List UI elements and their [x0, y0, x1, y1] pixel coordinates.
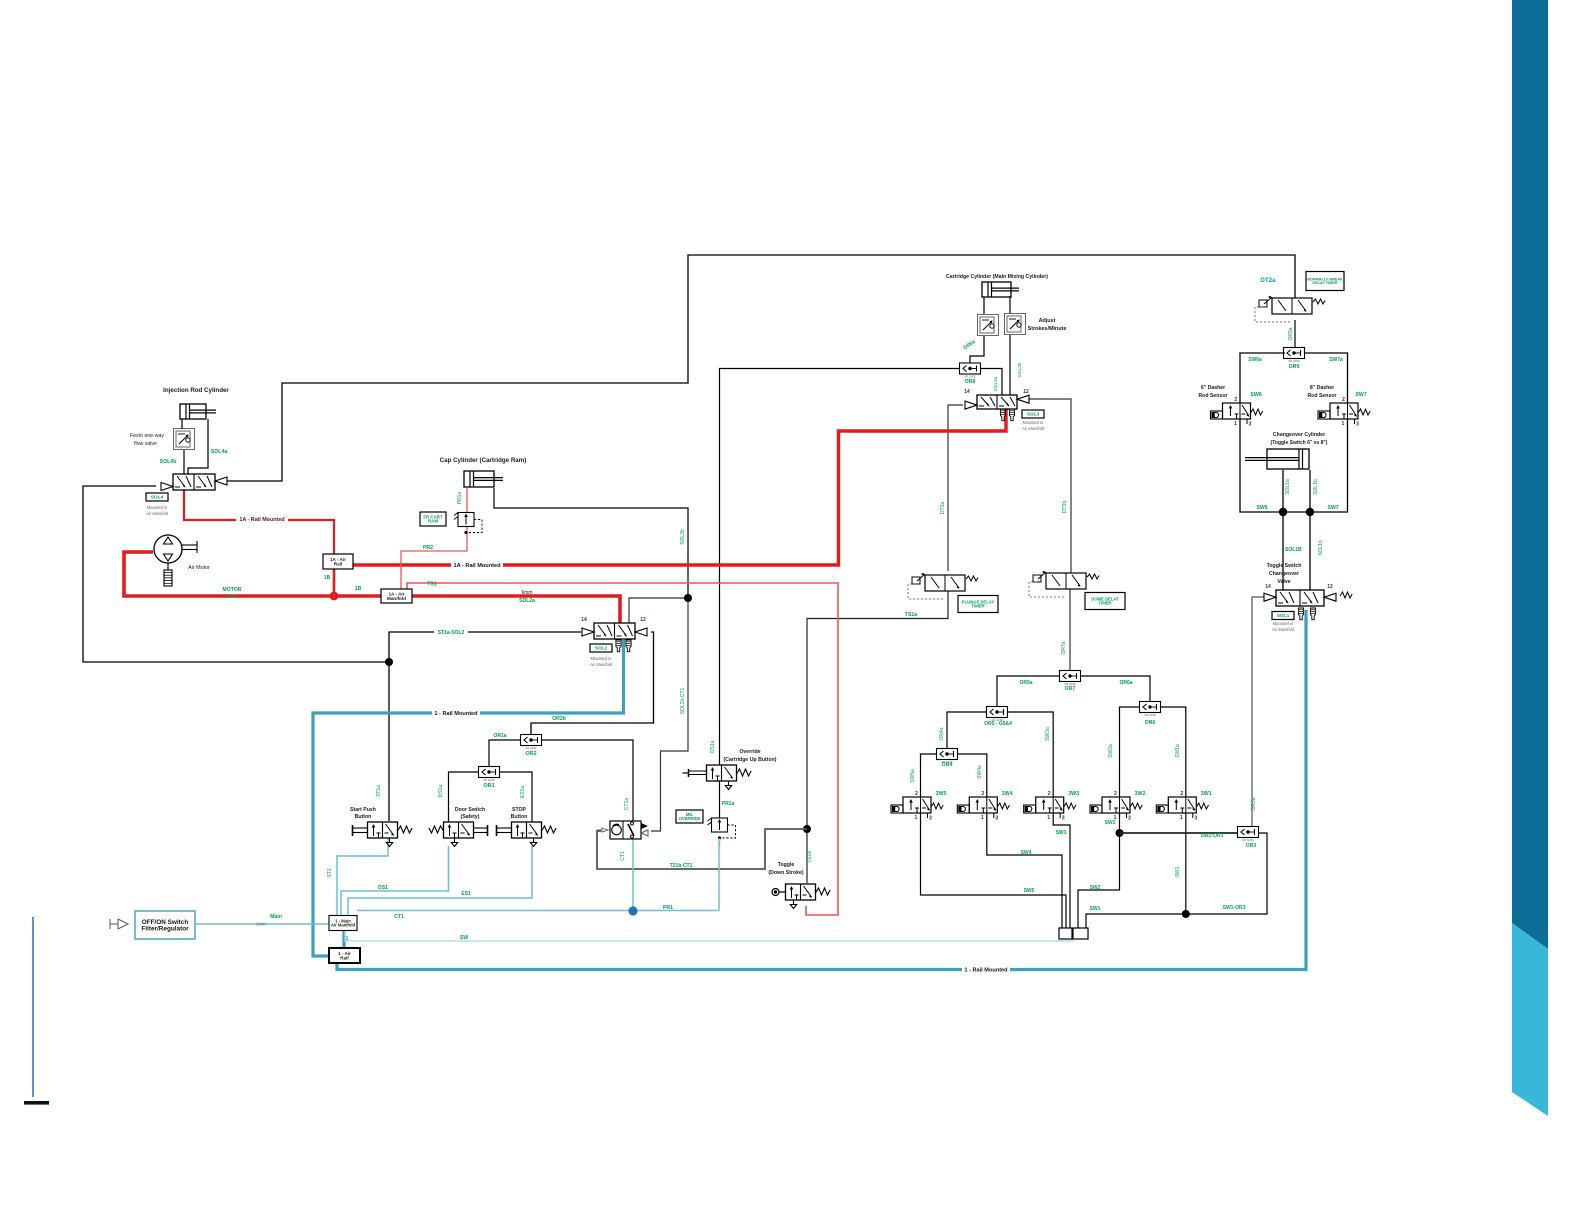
- svg-text:14: 14: [581, 617, 587, 623]
- svg-text:TIMER: TIMER: [971, 604, 984, 609]
- svg-text:2: 2: [1235, 397, 1238, 403]
- svg-text:SW2: SW2: [1090, 885, 1101, 891]
- svg-text:OR9a: OR9a: [1288, 327, 1294, 340]
- svg-text:Air Manifold: Air Manifold: [331, 923, 356, 928]
- svg-text:14: 14: [964, 389, 970, 395]
- svg-text:OS1a: OS1a: [710, 740, 716, 753]
- svg-text:SOL1b: SOL1b: [1318, 540, 1324, 556]
- svg-text:OR5 - G5&4: OR5 - G5&4: [984, 721, 1012, 727]
- svg-text:SW3: SW3: [1056, 830, 1067, 836]
- svg-text:OR2b: OR2b: [552, 716, 566, 722]
- svg-text:SOL2b: SOL2b: [680, 529, 686, 545]
- svg-text:OR GATE: OR GATE: [1242, 838, 1254, 842]
- svg-text:CT1a: CT1a: [624, 798, 630, 810]
- svg-text:3W3: 3W3: [1068, 791, 1079, 797]
- svg-text:DS1a: DS1a: [438, 785, 444, 798]
- svg-text:CT1: CT1: [620, 851, 626, 861]
- svg-text:Rod Sensor: Rod Sensor: [1198, 393, 1227, 399]
- svg-text:SOL2: SOL2: [595, 646, 608, 652]
- svg-text:3: 3: [1062, 816, 1065, 822]
- svg-text:Injection Rod Cylinder: Injection Rod Cylinder: [163, 387, 229, 394]
- svg-text:TS1: TS1: [427, 582, 437, 588]
- svg-text:DT3b: DT3b: [1062, 501, 1068, 513]
- svg-text:3: 3: [1249, 422, 1252, 428]
- svg-text:SW5a: SW5a: [910, 769, 916, 783]
- svg-text:1A - Rail Mounted: 1A - Rail Mounted: [239, 517, 284, 523]
- svg-text:1 - Rail Mounted: 1 - Rail Mounted: [964, 967, 1008, 973]
- svg-text:2: 2: [1180, 791, 1183, 797]
- svg-text:PR1: PR1: [663, 905, 673, 911]
- svg-text:T21b-CT1: T21b-CT1: [670, 863, 693, 869]
- svg-text:TIMER: TIMER: [1098, 601, 1111, 606]
- svg-text:OR3: OR3: [1246, 843, 1257, 849]
- svg-text:SOL3a: SOL3a: [993, 376, 999, 391]
- svg-text:SOL3: SOL3: [1027, 412, 1040, 418]
- svg-text:ST1a-SOL2: ST1a-SOL2: [438, 630, 465, 636]
- svg-text:OR GATE: OR GATE: [525, 746, 537, 750]
- svg-text:Cartridge Cylinder (Main Mixin: Cartridge Cylinder (Main Mixing Cylinder…: [946, 274, 1048, 280]
- svg-text:Adjust: Adjust: [1039, 318, 1056, 324]
- svg-text:ST1: ST1: [327, 868, 333, 877]
- svg-text:OR8: OR8: [965, 379, 976, 385]
- svg-text:1: 1: [1047, 815, 1050, 821]
- svg-text:SW6: SW6: [1256, 505, 1267, 511]
- svg-text:Toggle: Toggle: [778, 862, 795, 868]
- svg-text:(Safety): (Safety): [460, 814, 479, 820]
- svg-text:Door Switch: Door Switch: [455, 807, 485, 813]
- svg-text:DT3a: DT3a: [940, 502, 946, 514]
- svg-text:Air Motor: Air Motor: [188, 565, 210, 571]
- svg-text:14: 14: [1265, 584, 1271, 590]
- svg-text:SOL1b: SOL1b: [1313, 479, 1319, 495]
- svg-text:1: 1: [1234, 421, 1237, 427]
- svg-text:Air Manifold: Air Manifold: [589, 662, 613, 667]
- svg-text:Festo one-way: Festo one-way: [130, 433, 164, 439]
- svg-text:DELAY TIMER: DELAY TIMER: [1312, 281, 1338, 285]
- svg-text:SW6: SW6: [1250, 392, 1261, 398]
- svg-text:3W4: 3W4: [1002, 791, 1013, 797]
- svg-text:1: 1: [981, 815, 984, 821]
- svg-text:SW: SW: [460, 935, 468, 941]
- svg-text:3W2: 3W2: [1135, 791, 1146, 797]
- svg-text:1: 1: [915, 815, 918, 821]
- svg-text:OR5a: OR5a: [1019, 680, 1032, 686]
- svg-text:Manifold: Manifold: [387, 596, 406, 601]
- svg-text:ES1a: ES1a: [520, 786, 526, 798]
- svg-text:SOL1B: SOL1B: [1285, 547, 1302, 553]
- svg-text:SOL1a: SOL1a: [1285, 479, 1291, 495]
- svg-text:SW3a: SW3a: [1045, 727, 1051, 741]
- svg-text:Button: Button: [511, 814, 528, 820]
- svg-text:Start Push: Start Push: [350, 807, 376, 813]
- svg-text:SW5: SW5: [1024, 888, 1035, 894]
- svg-text:Air Manifold: Air Manifold: [1271, 627, 1295, 632]
- svg-text:Mounted in: Mounted in: [1273, 621, 1294, 626]
- svg-text:3: 3: [1128, 816, 1131, 822]
- svg-text:SW7: SW7: [1327, 505, 1338, 511]
- svg-text:Toggle Switch: Toggle Switch: [1267, 563, 1302, 569]
- svg-text:6mm: 6mm: [226, 594, 237, 600]
- svg-text:OR7: OR7: [1065, 686, 1076, 692]
- svg-text:PR1a: PR1a: [722, 801, 735, 807]
- svg-text:Rod Sensor: Rod Sensor: [1307, 393, 1336, 399]
- svg-text:DS1: DS1: [378, 885, 388, 891]
- svg-text:SW2-OR3: SW2-OR3: [1201, 833, 1224, 839]
- svg-text:1B: 1B: [355, 586, 362, 592]
- svg-text:6mm: 6mm: [256, 922, 266, 927]
- svg-text:2: 2: [981, 791, 984, 797]
- svg-text:SOL4b: SOL4b: [160, 459, 177, 465]
- svg-text:2: 2: [915, 791, 918, 797]
- svg-text:SOL4: SOL4: [151, 495, 164, 501]
- svg-text:SOL4a: SOL4a: [211, 449, 228, 455]
- svg-text:Strokes/Minute: Strokes/Minute: [1028, 326, 1067, 332]
- svg-text:SW7a: SW7a: [1329, 357, 1343, 363]
- svg-text:1: 1: [1180, 815, 1183, 821]
- svg-text:SOL1: SOL1: [1277, 613, 1290, 619]
- svg-text:DT2a: DT2a: [1260, 277, 1276, 284]
- svg-text:2: 2: [1342, 397, 1345, 403]
- svg-text:1: 1: [346, 936, 349, 942]
- svg-text:Air Manifold: Air Manifold: [145, 511, 169, 516]
- svg-text:OR6a: OR6a: [1119, 680, 1132, 686]
- svg-text:12: 12: [1023, 389, 1029, 395]
- svg-text:SW1-OR3: SW1-OR3: [1223, 905, 1246, 911]
- svg-text:MOTOR: MOTOR: [222, 587, 241, 593]
- svg-text:OR4: OR4: [942, 762, 953, 768]
- svg-text:flow valve: flow valve: [134, 441, 157, 447]
- svg-text:Rail: Rail: [334, 561, 342, 566]
- svg-text:1 - Rail Mounted: 1 - Rail Mounted: [434, 711, 478, 717]
- svg-text:TS1a: TS1a: [905, 612, 918, 618]
- svg-text:(Cartridge Up Button): (Cartridge Up Button): [723, 757, 776, 763]
- svg-text:Mounted in: Mounted in: [591, 656, 612, 661]
- svg-text:SOL2b-CT1: SOL2b-CT1: [680, 687, 686, 714]
- svg-text:SW4a: SW4a: [977, 765, 983, 779]
- svg-text:OR1: OR1: [483, 783, 494, 789]
- svg-text:Main: Main: [270, 914, 282, 920]
- svg-text:SW4: SW4: [1021, 850, 1032, 856]
- svg-text:Button: Button: [355, 814, 372, 820]
- svg-text:Cap Cylinder (Cartridge Ram): Cap Cylinder (Cartridge Ram): [440, 457, 527, 464]
- svg-text:SOL2a: SOL2a: [519, 598, 535, 604]
- svg-text:SW1a: SW1a: [1175, 744, 1181, 758]
- svg-text:3: 3: [1356, 422, 1359, 428]
- svg-text:PR2: PR2: [423, 545, 433, 551]
- svg-text:OR GATE: OR GATE: [1288, 359, 1300, 363]
- svg-text:OR4a: OR4a: [939, 727, 945, 740]
- svg-text:OVERRIDE: OVERRIDE: [679, 816, 701, 821]
- svg-text:12: 12: [640, 617, 646, 623]
- svg-text:OR7a: OR7a: [1061, 641, 1067, 654]
- svg-text:2: 2: [1048, 791, 1051, 797]
- svg-text:PR1a: PR1a: [457, 492, 463, 505]
- svg-text:OR GATE: OR GATE: [483, 778, 495, 782]
- svg-text:OR6: OR6: [1145, 720, 1156, 726]
- svg-text:OR GATE: OR GATE: [1144, 713, 1156, 717]
- svg-text:Air Manifold: Air Manifold: [1021, 426, 1045, 431]
- svg-text:Mounted in: Mounted in: [1023, 420, 1044, 425]
- svg-text:(Down Stroke): (Down Stroke): [768, 870, 803, 876]
- svg-text:Rail: Rail: [340, 955, 348, 960]
- svg-text:SW2a: SW2a: [1108, 744, 1114, 758]
- svg-text:6mm: 6mm: [521, 590, 532, 596]
- svg-text:3W5: 3W5: [936, 791, 947, 797]
- svg-text:1A - Rail Mounted: 1A - Rail Mounted: [453, 563, 501, 569]
- svg-text:SW7: SW7: [1355, 392, 1366, 398]
- svg-text:SOL3b: SOL3b: [1017, 362, 1023, 377]
- svg-text:TS1a: TS1a: [807, 851, 813, 863]
- svg-text:3: 3: [929, 816, 932, 822]
- svg-text:Changeover Cylinder: Changeover Cylinder: [1273, 432, 1325, 438]
- svg-text:3: 3: [995, 816, 998, 822]
- svg-text:STOP: STOP: [512, 807, 527, 813]
- svg-text:SW6a: SW6a: [1248, 357, 1262, 363]
- svg-text:12: 12: [1327, 584, 1333, 590]
- svg-text:SW1: SW1: [1175, 866, 1181, 877]
- svg-text:OR9: OR9: [1289, 364, 1300, 370]
- svg-text:Mounted in: Mounted in: [147, 505, 168, 510]
- svg-text:OR1a: OR1a: [493, 733, 506, 739]
- svg-text:3W1: 3W1: [1201, 791, 1212, 797]
- svg-text:SW1: SW1: [1090, 906, 1101, 912]
- svg-text:OR2: OR2: [525, 751, 536, 757]
- svg-text:Changeover: Changeover: [1269, 571, 1299, 577]
- svg-text:3: 3: [1194, 816, 1197, 822]
- svg-text:1: 1: [1342, 421, 1345, 427]
- svg-text:Override: Override: [739, 749, 760, 755]
- svg-text:SW2: SW2: [1105, 820, 1116, 826]
- svg-text:RAM: RAM: [428, 519, 438, 524]
- svg-text:ES1: ES1: [461, 891, 471, 897]
- svg-text:1B: 1B: [324, 575, 331, 581]
- svg-text:6" Dasher: 6" Dasher: [1201, 385, 1225, 391]
- svg-text:CT1: CT1: [394, 914, 404, 920]
- svg-text:Filter/Regulator: Filter/Regulator: [141, 925, 189, 932]
- svg-text:OR3a: OR3a: [1251, 797, 1257, 810]
- svg-text:Valve: Valve: [1277, 579, 1290, 585]
- svg-text:(Toggle Switch 6" vs 8"): (Toggle Switch 6" vs 8"): [1271, 440, 1328, 446]
- svg-text:2: 2: [1114, 791, 1117, 797]
- svg-text:ST1a: ST1a: [376, 785, 382, 797]
- svg-text:8" Dasher: 8" Dasher: [1310, 385, 1334, 391]
